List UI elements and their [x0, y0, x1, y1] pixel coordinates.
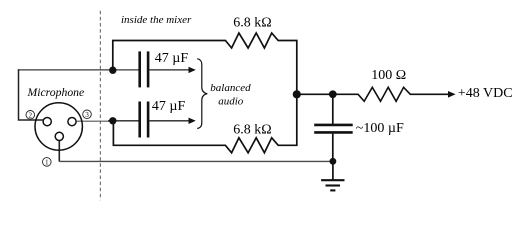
- svg-text:1: 1: [45, 159, 49, 167]
- svg-text:Microphone: Microphone: [27, 86, 85, 99]
- svg-text:3: 3: [85, 111, 89, 119]
- svg-text:balanced: balanced: [210, 82, 251, 94]
- svg-text:100 Ω: 100 Ω: [371, 68, 406, 83]
- svg-text:2: 2: [29, 111, 33, 119]
- svg-text:47 µF: 47 µF: [155, 51, 189, 66]
- svg-text:6.8 kΩ: 6.8 kΩ: [233, 123, 271, 138]
- svg-text:inside the mixer: inside the mixer: [121, 14, 192, 26]
- svg-text:6.8 kΩ: 6.8 kΩ: [233, 16, 271, 31]
- svg-text:47 µF: 47 µF: [152, 99, 186, 114]
- svg-text:+48 VDC: +48 VDC: [458, 86, 513, 101]
- svg-text:~100 µF: ~100 µF: [356, 121, 404, 136]
- svg-text:audio: audio: [218, 96, 244, 108]
